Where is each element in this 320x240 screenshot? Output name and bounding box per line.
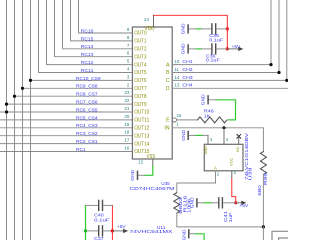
svg-text:+5V: +5V [232,44,241,49]
wire net RC11 vertical+elbow [39,0,133,73]
svg-text:21: 21 [124,106,130,111]
svg-text:OUT6: OUT6 [134,78,146,84]
capacitor C36 plates [211,44,213,54]
svg-text:10: 10 [174,59,179,64]
svg-text:B: B [166,70,170,76]
svg-text:+5V: +5V [239,203,248,208]
svg-text:GND: GND [203,146,208,154]
junction RC9_CS8 [21,87,24,90]
svg-text:+5V: +5V [117,224,126,229]
wire net RC15 vertical+elbow [71,0,133,41]
svg-text:0.1uF: 0.1uF [206,58,220,63]
svg-text:8: 8 [127,35,130,40]
svg-text:4: 4 [226,137,229,142]
svg-text:RC11: RC11 [81,68,94,73]
svg-text:U39: U39 [248,166,253,180]
wire net RC10_CS9 horizontal [31,79,133,81]
svg-text:C: C [166,78,170,84]
svg-text:OUT8: OUT8 [134,94,146,100]
wire R116 lower lead [177,213,262,227]
wire vertical bus line x=22.5 [22,0,24,240]
svg-text:OUT11: OUT11 [134,118,149,124]
svg-text:OUT1: OUT1 [134,39,146,45]
wire net RC4_CS3 horizontal [0,127,132,129]
svg-text:1: 1 [176,121,179,126]
wire net CH1 vertical [270,0,272,65]
power +5V symbol (C37) [112,230,123,232]
svg-text:18: 18 [124,130,130,135]
wire C36 to +5V [216,48,227,50]
svg-text:15: 15 [177,113,182,118]
svg-text:RC2_CS1: RC2_CS1 [76,139,98,144]
wire GND vertical green (C40/C37) [85,205,87,240]
svg-text:OUT9: OUT9 [134,102,146,108]
wire C41 to +5V [223,202,236,204]
no-connect X pin 1 [238,138,240,145]
wire net CH2 vertical [278,0,280,73]
svg-text:2: 2 [127,82,130,87]
junction RC10_CS9 [29,79,32,82]
svg-text:RC8_CS7: RC8_CS7 [76,92,98,97]
svg-text:RC7_CS6: RC7_CS6 [76,100,98,105]
svg-text:RC13: RC13 [81,52,94,57]
ground GND-VSS bar [137,171,139,179]
junction CH1 [269,63,272,66]
wire net RC3_CS2 horizontal [0,135,132,137]
wire net RC2_CS1 horizontal [0,143,132,145]
wire net RC5_CS4 horizontal [0,119,132,121]
svg-text:11: 11 [174,67,179,72]
wire E net [177,119,198,121]
wire net RC8_CS7 horizontal [15,95,133,97]
svg-text:RC6_CS5: RC6_CS5 [76,107,98,112]
junction green C37 [84,229,87,232]
wire U39 A-pin to R116 [177,171,216,193]
ground GND-U39 bar [187,132,189,140]
power +5V symbol (C41) [236,202,242,204]
junction RC7_CS6 [5,103,8,106]
svg-text:RC12: RC12 [81,60,94,65]
wire net CH1 [172,64,271,66]
wire net RC12 vertical+elbow [47,0,133,65]
svg-text:GND: GND [130,170,135,181]
ground GND-R46 bar [207,96,209,104]
wire VCC red to +5V [232,179,236,203]
wire net CH4 [172,87,289,89]
svg-text:CH1: CH1 [182,59,193,64]
svg-text:D: D [166,86,170,92]
junction CH2 [277,71,280,74]
svg-text:CH4: CH4 [182,83,193,88]
junction CH3 [285,79,288,82]
wire +5V vertical red (C40/C37) [111,205,113,240]
svg-text:13: 13 [174,83,179,88]
resistor R49 [260,152,266,175]
svg-text:RC3_CS2: RC3_CS2 [76,131,98,136]
capacitor C35 plates [211,24,213,34]
svg-text:A: A [166,62,170,68]
pin 24 stub VDD [153,15,155,27]
svg-text:20: 20 [124,114,130,119]
svg-text:CH3: CH3 [182,75,193,80]
wire R46 to GND green [227,119,229,121]
svg-text:E: E [166,118,170,124]
wire net CH2 [172,72,279,74]
pin E inverter bubble [172,118,176,122]
svg-text:RC15: RC15 [81,36,94,41]
svg-text:OUT14: OUT14 [134,141,149,147]
svg-text:2: 2 [217,172,220,177]
svg-text:12: 12 [138,160,143,165]
connector J? outline bottom-right [272,231,289,240]
ground GND-C36 wire [189,48,197,50]
ground GND-C41 bar [196,199,198,207]
svg-text:6: 6 [127,51,130,56]
svg-text:14: 14 [174,75,179,80]
wire net RC1 horizontal [0,151,132,153]
svg-text:680: 680 [257,184,262,195]
wire IN net [172,128,263,152]
svg-text:1K: 1K [204,113,211,118]
svg-text:OUT13: OUT13 [134,133,149,139]
junction +5V at C41 [234,201,237,204]
ground GND-C35 wire [189,28,197,30]
svg-text:0.1uF: 0.1uF [94,218,110,223]
wire vertical bus line x=6.5 [6,0,8,240]
svg-text:4: 4 [127,67,130,72]
svg-text:5: 5 [127,59,130,64]
pin 12 stub VSS [152,159,154,166]
svg-text:OUT5: OUT5 [134,70,146,76]
svg-text:OUT12: OUT12 [134,126,149,132]
wire net RC14 vertical+elbow [63,0,133,49]
svg-text:22: 22 [124,98,130,103]
svg-text:RC16: RC16 [81,28,94,33]
wire R49 lower lead [262,175,264,227]
svg-text:GND: GND [181,44,186,55]
wire vertical bus line x=14.5 [14,0,16,240]
svg-text:GND: GND [181,230,186,240]
svg-text:C37: C37 [94,236,104,240]
wire net RC16 vertical+elbow [79,0,133,33]
svg-text:74VHC541MX: 74VHC541MX [130,229,174,234]
wire net RC9_CS8 horizontal [23,87,133,89]
wire net RC7_CS6 horizontal [7,103,133,105]
svg-text:OUT10: OUT10 [134,110,149,116]
resistor R46 [198,117,228,123]
wire U39 output stub [223,128,225,145]
svg-text:17: 17 [124,138,130,143]
junction IN at U39 output [222,126,225,129]
ground GND-C35 bar [187,25,189,33]
svg-text:C41: C41 [223,210,228,222]
svg-text:RC1: RC1 [76,147,86,152]
wire net CH3 vertical [286,0,288,80]
svg-text:GND: GND [190,197,195,208]
junction R49/R116 net [262,225,265,228]
svg-text:A: A [214,165,217,170]
ground GND-U39 wire [189,134,196,136]
junction RC6_CS5 [5,110,8,113]
svg-text:RC14: RC14 [81,44,94,49]
IC U35 CD74HC4067M body [132,27,172,159]
wire +5V net red [154,15,228,49]
svg-text:OUT2: OUT2 [134,47,146,53]
svg-text:NC: NC [235,147,240,152]
resistor R116 [174,193,180,214]
junction red C37 [111,229,114,232]
svg-text:OUT4: OUT4 [134,62,146,68]
wire VSS green to GND [144,166,152,175]
svg-text:OUT7: OUT7 [134,86,146,92]
wire net CH3 [172,79,287,81]
svg-text:RC5_CS4: RC5_CS4 [76,115,98,120]
wire net RC6_CS5 horizontal [0,111,132,113]
wire net RC13 vertical+elbow [55,0,133,57]
capacitor C40 [86,204,99,206]
svg-text:GND: GND [181,24,186,35]
wire C35 to +5V [216,28,227,30]
ground GND-U11 bar [188,230,190,238]
capacitor C37 [86,230,99,232]
svg-text:OUT3: OUT3 [134,54,146,60]
junction +5V at C35 [226,27,229,30]
svg-text:RC9_CS8: RC9_CS8 [76,84,98,89]
svg-text:GND: GND [201,94,206,105]
svg-text:16: 16 [124,146,130,151]
svg-text:9: 9 [127,27,130,32]
svg-text:CH2: CH2 [182,67,193,72]
svg-text:VSS: VSS [147,154,156,160]
ground GND-C41 wire [198,202,205,204]
svg-text:VCC: VCC [229,158,234,166]
power +5V symbol top [227,48,238,50]
svg-text:19: 19 [124,122,130,127]
svg-text:IN: IN [164,126,169,132]
ground GND-C36 bar [187,45,189,53]
capacitor C41 plates [218,198,220,208]
svg-text:CD74HC4067M: CD74HC4067M [130,186,175,191]
svg-text:RC10_CS9: RC10_CS9 [76,76,101,81]
svg-text:3: 3 [210,137,213,142]
svg-text:24: 24 [144,17,149,22]
junction RC8_CS7 [13,95,16,98]
svg-text:0.1uF: 0.1uF [209,37,223,42]
junction +5V at C36 [226,47,229,50]
svg-text:23: 23 [124,90,130,95]
op-amp U39 74LVC1G14 body [204,144,243,171]
svg-text:RC4_CS3: RC4_CS3 [76,123,98,128]
wire vertical bus line x=30.5 [30,0,32,240]
svg-text:GND: GND [181,130,186,141]
pin VCC stub U39 [231,171,233,179]
svg-text:7: 7 [127,43,130,48]
ground GND-U11 wire [189,233,195,235]
svg-text:1uF: 1uF [228,212,233,222]
svg-text:3: 3 [127,74,130,79]
